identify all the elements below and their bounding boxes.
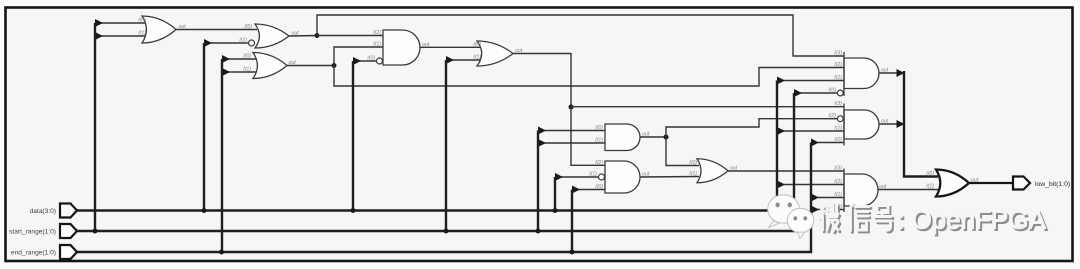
arrow tap AND6.I0 [811,206,819,214]
and-gate U6 [605,124,640,151]
node A junction [315,33,320,38]
arrow tap AND6.I2 [777,181,785,189]
svg-text:I(1): I(1) [473,55,481,61]
svg-text:start_range(1:0): start_range(1:0) [9,229,56,236]
svg-text:out: out [515,48,523,54]
inverter bubble U7.I1 [599,174,605,180]
wire node D down to OR5.I0 [666,137,699,166]
and-gate U7 [605,161,640,193]
wire AND2.out to node D [640,136,666,138]
and-gate U4 [383,30,420,65]
svg-text:I(2): I(2) [828,113,836,119]
wire tap to AND4.I1 [777,80,844,82]
wire tap to OR3.I1 [222,71,257,73]
arrow tap AND6.I1 [811,194,819,202]
wire node C to AND5.I3 [571,106,844,108]
node B junction [332,63,337,68]
junction data/AND1 tap [351,208,356,213]
wire tap to AND2.I0 [538,130,607,132]
svg-text:out: out [292,31,300,37]
arrow tap AND1.I0 [353,57,361,65]
output port low_bit(1:0) [1013,177,1030,190]
svg-text:end_range(1:0): end_range(1:0) [11,250,56,257]
svg-text:I(0): I(0) [243,54,251,60]
svg-text:I(1): I(1) [589,172,597,178]
wire AND6.out to OR6.I1 [877,189,938,191]
vertical bus from end_range to AND3.I0 [571,190,573,253]
inverter bubble U4.I0 [377,58,383,64]
svg-text:data(3:0): data(3:0) [30,208,56,215]
wire node A to AND1.I2 [317,35,385,37]
svg-text:out: out [642,132,650,138]
and-gate U10 [844,110,879,139]
svg-text:I(0): I(0) [828,88,836,94]
or-gate U12 [936,170,969,197]
arrow AND5.out joins bus [897,120,905,128]
arrow tap OR3.I1 [222,68,230,76]
arrow tap OR3.I0 [222,55,230,63]
svg-text:I(2): I(2) [595,160,603,166]
svg-text:I(1): I(1) [243,67,251,73]
junction start_range/OR1 tap [93,229,98,234]
arrow tap OR1.I1 [95,32,103,40]
wire node A up and across top to AND4.I3 [317,15,844,56]
wire tap to AND5.I1 [777,130,844,132]
wire AND4.out to bus [879,72,897,74]
or-gate U8 [697,159,728,183]
svg-text:I(0): I(0) [595,125,603,131]
wire AND5.out to bus [879,123,897,125]
arrow tap AND5.I0 [811,139,819,147]
wire OR2.out to node A [289,35,317,38]
arrow tap AND2.I1 [538,139,546,147]
wire tap to AND4.I0 bubble [794,92,837,94]
arrow tap AND2.I0 [538,127,546,135]
wire AND3.out to OR5.I1 [640,176,699,179]
wire tap to AND3.I0 [572,189,607,191]
svg-text:out: out [879,184,887,190]
svg-text:I(0): I(0) [689,160,697,166]
svg-text:low_bit(1:0): low_bit(1:0) [1035,181,1070,188]
svg-text:out: out [422,42,430,48]
arrow tap AND3.I1 [555,173,563,181]
junction start_range/AND2 tap [536,229,541,234]
svg-text:I(3): I(3) [834,51,842,57]
svg-text:I(1): I(1) [926,184,934,190]
and-gate U9 [844,58,879,89]
vertical bus from data to AND1.I0 [352,61,354,211]
junction end_range/OR3 tap [219,250,224,255]
svg-text:out: out [881,68,889,74]
and-gate U11 [844,174,878,206]
vertical bus from end_range to OR3 [221,59,223,252]
node C junction [569,105,574,110]
wire OR3.out to node B [286,65,334,67]
junction data/AND3 tap [553,208,558,213]
or-gate U1 [142,16,176,43]
svg-text:: OpenFPGA: : OpenFPGA [897,205,1046,235]
node D junction [664,135,669,140]
start_range bus wire [77,93,794,231]
inverter bubble U9.I0 [837,90,843,96]
svg-text:I(1): I(1) [239,38,247,44]
arrow tap OR2.I1 [204,39,212,47]
inverter bubble U10.I2 [837,116,843,122]
svg-text:I(1): I(1) [595,138,603,144]
wire OR1.out to OR2.I0 [176,29,257,31]
data bus wire [77,81,777,211]
svg-text:I(2): I(2) [834,62,842,68]
wire tap to AND3.I1 bubble [555,176,598,178]
watermark WeChat logo and text [768,195,1049,239]
wire tap to AND1.I0 bubble [353,60,376,62]
wire tap to OR4.I1 [446,59,482,61]
arrow tap AND5.I1 [777,127,785,135]
arrow tap AND4.I0 [794,89,802,97]
end_range bus wire [77,143,811,253]
junction end_range/AND3 tap [570,250,575,255]
svg-text:I(0): I(0) [138,18,146,24]
junction start_range/OR4 tap [444,229,449,234]
svg-text:out: out [730,166,738,172]
arrow tap OR4.I1 [446,56,454,64]
svg-text:out: out [642,172,650,178]
svg-text:I(0): I(0) [367,56,375,62]
wire node B to AND1.I1 [334,47,385,66]
wire tap to AND6.I2 [777,184,844,186]
vertical bus from start_range to OR4.I1 [445,60,447,231]
vertical bus from data to AND3.I1 [554,177,556,211]
input port data(3:0) [60,204,77,218]
wire tap to OR3.I0 [222,58,257,60]
wire OR5.out to AND6.I3 [728,170,844,172]
svg-text:out: out [881,119,889,125]
bus AND4/AND5 outputs to OR6.I0 [904,71,938,177]
wire OR4.out to node C [513,54,571,108]
svg-text:I(1): I(1) [834,75,842,81]
svg-text:I(1): I(1) [138,31,146,37]
svg-text:I(1): I(1) [373,42,381,48]
or-gate U2 [255,24,289,48]
svg-text:I(0): I(0) [595,184,603,190]
wire tap to OR1.I0 [95,22,147,24]
svg-text:I(1): I(1) [834,192,842,198]
arrow tap AND4.I1 [777,77,785,85]
svg-text:I(2): I(2) [373,30,381,36]
wire tap to AND6.I1 [811,197,844,199]
svg-text:I(3): I(3) [834,101,842,107]
wire OR6.out to output port [969,182,1013,184]
svg-text:I(0): I(0) [473,42,481,48]
junction data/OR2 tap [202,208,207,213]
arrow AND4.out joins bus [897,69,905,77]
arrow tap OR1.I0 [95,19,103,27]
vertical bus from data to OR2.I1 [203,43,205,211]
svg-text:I(2): I(2) [834,179,842,185]
svg-text:I(3): I(3) [834,166,842,172]
wire node B down-right to AND4.I2 [334,66,844,87]
svg-text:I(1): I(1) [689,171,697,177]
svg-text:I(1): I(1) [834,126,842,132]
arrow tap AND3.I0 [572,186,580,194]
or-gate U3 [253,53,287,79]
vertical bus from start_range to OR1 [94,23,96,231]
svg-text:I(0): I(0) [834,137,842,143]
wire tap to AND5.I0 [811,142,844,144]
wire tap to AND6.I0 [811,209,844,211]
wire AND1.out to OR4.I0 [420,46,480,48]
or-gate U5 [477,41,513,66]
wire tap to AND2.I1 [538,142,607,144]
wire tap to OR1.I1 [95,35,147,37]
svg-text:I(0): I(0) [926,171,934,177]
input port end_range(1:0) [60,245,77,259]
svg-text:out: out [179,24,187,30]
wire node D up-right jog to AND5.I2 [666,119,837,137]
wire node C down to AND3.I2 [571,107,607,165]
inverter bubble U2.I1 [249,40,255,46]
vertical bus from start_range to AND2 [537,131,539,232]
svg-text:I(0): I(0) [244,24,252,30]
svg-text:out: out [289,60,297,66]
wire tap to OR2.I1 bubble [204,42,248,44]
input port start_range(1:0) [60,224,77,238]
